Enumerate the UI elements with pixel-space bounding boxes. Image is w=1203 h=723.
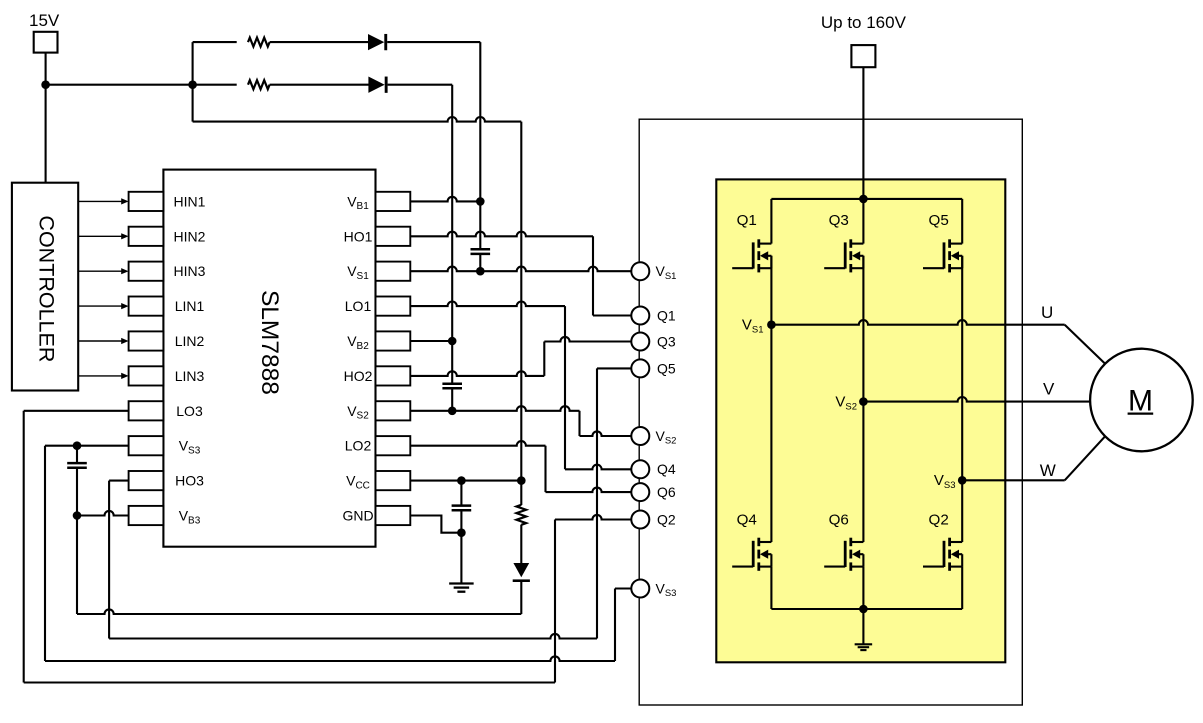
pin box right 8 — [376, 436, 411, 455]
node VS1 bootstrap1 — [476, 267, 485, 276]
terminal Q4 circle — [631, 460, 649, 478]
wire Q5 gate vertical — [596, 368, 598, 638]
wire bootstrap3 cap lower — [76, 468, 78, 516]
svg-text:LO3: LO3 — [176, 403, 203, 419]
wire bootstrap3 cap upper — [76, 446, 78, 463]
transistor Q6 — [849, 538, 852, 547]
wire LO2 to Q6 terminal — [546, 488, 632, 493]
svg-text:LIN2: LIN2 — [175, 333, 205, 349]
capacitor bootstrap2 — [442, 382, 462, 385]
svg-text:Q4: Q4 — [657, 461, 676, 477]
svg-text:HO2: HO2 — [344, 368, 373, 384]
node VS3 bridge — [958, 476, 967, 485]
wire HO3 bus — [109, 634, 597, 639]
wire VS1 net — [410, 267, 631, 272]
wire VCC cap lower — [460, 510, 462, 583]
node VCC cap — [457, 476, 466, 485]
wire HO2 vertical — [543, 342, 545, 376]
pin box left 2 — [129, 227, 164, 246]
wire VCC supply vertical — [520, 122, 522, 481]
wire VCC supply line — [193, 117, 522, 122]
wire 160V supply — [862, 67, 864, 199]
svg-text:Q1: Q1 — [737, 212, 757, 229]
wire controller arrow 4 — [78, 305, 121, 307]
node bottom bus — [859, 605, 868, 614]
svg-text:LO1: LO1 — [345, 298, 372, 314]
ground bridge — [855, 643, 873, 645]
terminal Q2 circle — [631, 511, 649, 529]
wire HO1 net — [410, 232, 593, 237]
node 15V junction — [41, 80, 50, 89]
svg-text:Q1: Q1 — [657, 307, 676, 323]
wire LO1 vertical — [564, 306, 566, 469]
svg-text:HO3: HO3 — [175, 473, 204, 489]
wire right column VS3 to Q2 — [961, 480, 963, 542]
resistor bootstrap 2 — [248, 80, 270, 89]
wire left column VS1 to Q4 — [770, 325, 772, 542]
capacitor bootstrap3 — [67, 462, 87, 465]
wire right column source to VS3 — [961, 256, 963, 480]
wire VS3 left — [45, 445, 129, 447]
wire VS3 to terminal — [615, 587, 631, 589]
wire right column drain — [961, 199, 963, 244]
svg-text:HO1: HO1 — [344, 228, 373, 244]
wire HO2 to Q3 terminal — [544, 337, 631, 342]
node VS2 bootstrap2 — [448, 407, 457, 416]
pin box right 10 — [376, 506, 411, 525]
wire bootstrap branch 1 left — [193, 41, 237, 43]
node VS3 cap — [73, 441, 82, 450]
capacitor bootstrap1 — [471, 248, 491, 251]
svg-text:Q5: Q5 — [929, 212, 949, 229]
15V terminal square — [34, 32, 58, 53]
pin box left 3 — [129, 262, 164, 281]
wire VS3 terminal vertical — [614, 589, 616, 662]
svg-text:LIN1: LIN1 — [175, 298, 205, 314]
wire controller arrow 5 — [78, 340, 121, 342]
wire VS3 vertical — [44, 446, 46, 661]
pin box left 8 — [129, 436, 164, 455]
wire bridge top bus — [771, 198, 962, 200]
power module box — [639, 119, 1022, 705]
wire LO1 net — [410, 302, 565, 307]
wire VB3 left — [77, 511, 129, 516]
wire HO1 vertical — [592, 236, 594, 315]
node VB2 bootstrap2 — [448, 337, 457, 346]
node GND join — [457, 528, 466, 537]
svg-text:Up to 160V: Up to 160V — [821, 13, 907, 32]
wire VB3 vertical — [76, 516, 78, 615]
wire VCC to resistor — [520, 481, 522, 505]
wire bridge ground stem — [862, 609, 864, 644]
wire controller arrow 1 — [78, 200, 121, 202]
wire bootstrap 1 mid — [270, 41, 368, 43]
wire right column Q2 source — [961, 567, 963, 609]
svg-text:Q6: Q6 — [829, 512, 849, 529]
wire VS2 vertical jog — [578, 411, 580, 436]
svg-text:Q4: Q4 — [737, 512, 757, 529]
wire HO1 to Q1 terminal — [593, 314, 631, 316]
wire bootstrap2 vertical upper — [451, 85, 453, 384]
pin box right 4 — [376, 297, 411, 316]
wire LO2 net — [410, 441, 545, 446]
diode bootstrap3 — [513, 563, 529, 577]
wire LO2 vertical — [544, 446, 546, 492]
svg-text:Q3: Q3 — [829, 212, 849, 229]
diode bootstrap 2 — [368, 77, 384, 93]
node VS1 bridge — [767, 320, 776, 329]
svg-text:LO2: LO2 — [345, 438, 372, 454]
resistor bootstrap 1 — [248, 38, 270, 47]
node branch junction — [188, 80, 197, 89]
pin box right 6 — [376, 366, 411, 385]
wire bootstrap 2 mid — [270, 84, 369, 86]
pin box left 7 — [129, 401, 164, 420]
wire branch junction vertical — [192, 42, 194, 122]
wire bootstrap branch 2 left — [193, 84, 237, 86]
160V terminal square — [851, 45, 875, 67]
svg-text:U: U — [1041, 303, 1053, 322]
motor M circle — [1090, 349, 1193, 452]
terminal Q1 circle — [631, 307, 649, 325]
motor M underline — [1128, 413, 1154, 415]
svg-text:HIN1: HIN1 — [174, 193, 206, 209]
pin box right 7 — [376, 401, 411, 420]
wire controller arrow 3 — [78, 270, 121, 272]
wire phase W diagonal — [1065, 436, 1105, 480]
pin box left 9 — [129, 471, 164, 490]
terminal VS3 circle — [631, 580, 649, 598]
wire phase U diagonal — [1065, 325, 1105, 364]
transistor Q5 — [948, 239, 951, 248]
node VS2 bridge — [859, 397, 868, 406]
wire mid column VS2 to Q6 — [862, 402, 864, 542]
pin box left 1 — [129, 192, 164, 211]
pin box right 1 — [376, 192, 411, 211]
wire phase V row — [863, 397, 1090, 402]
wire VCC cap upper — [460, 481, 462, 506]
svg-text:SLM7888: SLM7888 — [256, 290, 283, 395]
svg-text:CONTROLLER: CONTROLLER — [35, 215, 59, 362]
node VCC supply — [517, 476, 526, 485]
wire GND pin jog — [410, 516, 461, 533]
svg-text:Q2: Q2 — [929, 512, 949, 529]
transistor Q1 — [757, 239, 760, 248]
pin box left 4 — [129, 297, 164, 316]
pin box right 9 — [376, 471, 411, 490]
wire left column Q4 source — [770, 567, 772, 609]
svg-text:Q3: Q3 — [657, 333, 676, 349]
svg-text:LIN3: LIN3 — [175, 368, 205, 384]
transistor Q2 — [948, 538, 951, 547]
svg-text:Q5: Q5 — [657, 360, 676, 376]
controller box — [12, 183, 78, 391]
svg-text:Q2: Q2 — [657, 511, 676, 527]
wire VS3 bus — [45, 656, 615, 661]
wire 15V square to controller — [45, 53, 47, 183]
wire LO3 bus — [24, 681, 555, 683]
wire VB1 to bootstrap1 — [410, 197, 480, 202]
wire Q2 gate to terminal — [555, 515, 631, 520]
wire VCC net — [410, 480, 521, 482]
capacitor VCC decoupling — [452, 504, 472, 507]
wire phase U row — [771, 320, 1064, 325]
transistor Q4 — [757, 538, 760, 547]
pin box left 6 — [129, 366, 164, 385]
wire bootstrap 1 right — [387, 41, 480, 43]
terminal VS1 circle — [631, 262, 649, 280]
wire resistor to diode — [520, 525, 522, 564]
wire VB2 to bootstrap2 — [410, 340, 452, 342]
svg-text:15V: 15V — [29, 11, 60, 30]
transistor Q3 — [849, 239, 852, 248]
pin box right 3 — [376, 262, 411, 281]
terminal Q5 circle — [631, 359, 649, 377]
wire HO3 vertical — [108, 481, 110, 639]
terminal Q6 circle — [631, 483, 649, 501]
wire mid column drain — [862, 199, 864, 244]
IC U1 SLM7888 box — [163, 170, 375, 547]
svg-text:W: W — [1040, 461, 1056, 480]
wire LO1 to Q4 terminal — [565, 465, 631, 470]
svg-text:HIN3: HIN3 — [174, 263, 206, 279]
wire diode to VB3 bus — [520, 582, 522, 614]
wire VS2 to terminal — [580, 431, 632, 436]
wire bootstrap1 vertical lower — [479, 254, 481, 271]
wire Q5 gate to terminal — [597, 367, 631, 369]
svg-text:Q6: Q6 — [657, 484, 676, 500]
wire HO2 net — [410, 371, 544, 376]
wire mid column Q6 source — [862, 567, 864, 609]
terminal VS2 circle — [631, 427, 649, 445]
wire bootstrap1 vertical upper — [479, 42, 481, 249]
wire controller arrow 2 — [78, 235, 121, 237]
node VB3 cap — [73, 511, 82, 520]
svg-text:GND: GND — [342, 508, 373, 524]
wire bridge bottom bus — [771, 608, 962, 610]
diode bootstrap 1 — [368, 34, 384, 50]
node top bus supply — [859, 195, 868, 204]
wire VS2 net — [410, 406, 579, 411]
wire HO3 left — [109, 480, 129, 482]
svg-text:HIN2: HIN2 — [174, 228, 206, 244]
wire VB3 bus — [77, 609, 521, 614]
pin box left 10 — [129, 506, 164, 525]
wire bootstrap2 vertical lower — [451, 388, 453, 411]
wire Q2 gate vertical — [554, 520, 556, 683]
wire bootstrap 2 right — [388, 84, 453, 86]
wire 15V to branch junction — [46, 84, 193, 86]
pin box right 5 — [376, 331, 411, 350]
wire controller arrow 6 — [78, 375, 121, 377]
node VB1 bootstrap1 — [476, 197, 485, 206]
pin box right 2 — [376, 227, 411, 246]
wire mid column source to VS2 — [862, 256, 864, 402]
wire LO3 vertical — [23, 411, 25, 683]
wire left column source to VS1 — [770, 256, 772, 325]
wire phase W row — [962, 479, 1064, 481]
wire left column drain — [770, 199, 772, 244]
resistor bootstrap3 — [517, 505, 527, 525]
ground VCC cap — [449, 582, 474, 584]
pin box left 5 — [129, 331, 164, 350]
yellow bridge region — [716, 179, 1005, 662]
svg-text:V: V — [1043, 380, 1055, 399]
terminal Q3 circle — [631, 333, 649, 351]
wire LO3 left — [24, 410, 129, 412]
